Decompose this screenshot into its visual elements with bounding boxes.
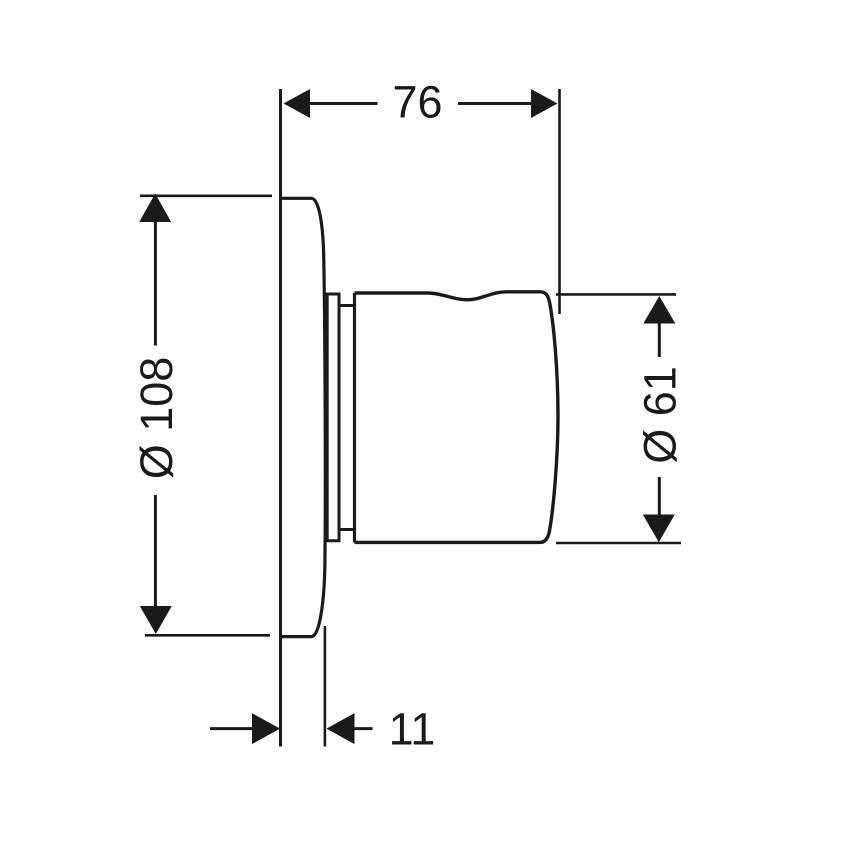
dimension line d108 lower segment <box>154 495 157 608</box>
svg-text:11: 11 <box>389 704 436 755</box>
arrowhead d61 up <box>643 296 675 324</box>
arrowhead 11 left (points right) <box>252 713 280 744</box>
extension line top of d108 dim <box>140 195 272 198</box>
sleeve ring 2 top edge <box>339 304 355 307</box>
dimension line 76 left segment <box>308 102 378 105</box>
extension line bottom of d61 dim <box>556 542 681 545</box>
extension line right of 76 dim <box>558 89 561 314</box>
sleeve ring 1 left edge <box>326 294 329 541</box>
sleeve ring 2 bottom edge <box>339 528 355 531</box>
svg-text:Ø 108: Ø 108 <box>131 357 182 480</box>
arrowhead d108 up <box>139 194 171 223</box>
dimension line 76 right segment <box>458 102 533 105</box>
handle knob left face <box>353 293 356 542</box>
dimension line d61 lower segment <box>658 477 661 516</box>
arrowhead 76 right <box>531 89 558 118</box>
arrowhead d61 down <box>643 515 675 543</box>
svg-text:76: 76 <box>392 77 442 128</box>
extension line top of d61 dim <box>556 293 676 296</box>
svg-text:Ø 61: Ø 61 <box>635 366 686 464</box>
handle knob outline with grip wave and bulged face <box>355 292 559 543</box>
dimension line 11 left tail <box>210 727 254 730</box>
escutcheon plate outline <box>282 198 325 636</box>
extension line bottom of d108 dim <box>145 634 270 637</box>
dimension line d108 upper segment <box>154 220 157 346</box>
dimension line 11 right tail <box>353 727 373 730</box>
sleeve ring 1 <box>324 294 339 541</box>
dimension line d61 upper segment <box>658 321 661 357</box>
arrowhead 76 left <box>284 89 311 118</box>
arrowhead 11 right (points left) <box>327 713 355 744</box>
extension line left (wall plane, plate left edge, shared by 76 and 11 dims) <box>279 89 282 747</box>
arrowhead d108 down <box>140 606 172 634</box>
extension line right of 11 dim (plate max depth) <box>324 626 327 747</box>
